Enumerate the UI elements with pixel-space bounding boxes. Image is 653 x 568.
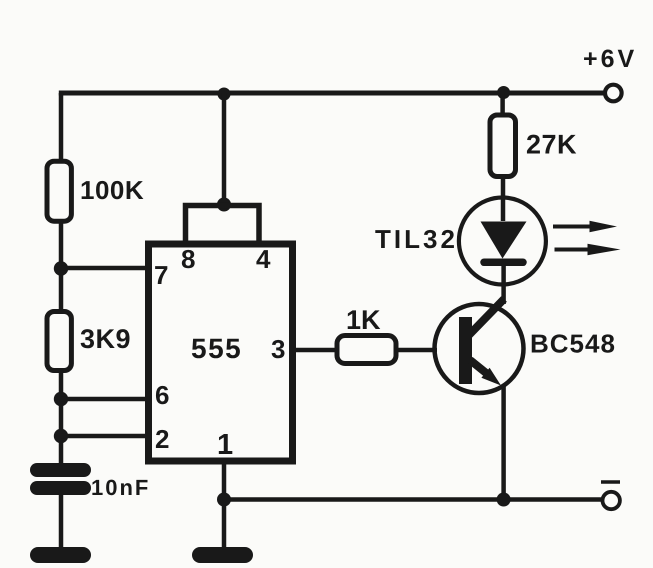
wire: 555 supply branch vertical (222, 93, 227, 204)
wire: pins 8 and 4 bracket (186, 206, 260, 247)
minus mark above 0V terminal (601, 480, 620, 484)
transistor Q1 emitter arrowhead (481, 368, 501, 386)
svg-text:100K: 100K (80, 175, 144, 205)
svg-text:1K: 1K (346, 305, 381, 335)
svg-text:2: 2 (155, 424, 169, 454)
svg-text:555: 555 (191, 333, 242, 364)
wire: pin 1 vertical (222, 461, 227, 550)
transistor Q1 emitter stroke (470, 360, 488, 375)
junction: top rail to 555 supply branch (218, 88, 231, 101)
capacitor C1 10nF top plate (37, 463, 84, 477)
junction: pin 1 to bottom rail (217, 493, 231, 507)
svg-text:3: 3 (271, 334, 285, 364)
capacitor C1 10nF bottom plate (37, 481, 84, 495)
light emission arrow (upper) (553, 225, 592, 229)
wire: left vertical between 100K and 3K9 (59, 222, 64, 313)
LED D1 anode triangle (481, 222, 527, 259)
wire: 27K to LED (501, 175, 506, 221)
wire: pin 2 (61, 434, 148, 439)
svg-text:27K: 27K (526, 130, 577, 160)
LED D1 TIL32 circle (459, 198, 546, 285)
resistor R3 1K (337, 336, 396, 364)
ground (under pin 1) (200, 547, 245, 563)
wire: emitter to bottom rail (501, 386, 506, 499)
svg-text:4: 4 (256, 244, 271, 274)
svg-text:BC548: BC548 (530, 329, 616, 359)
svg-text:7: 7 (154, 260, 168, 290)
+6V terminal (605, 85, 622, 102)
ground (left, under capacitor) (38, 547, 83, 563)
junction: pin 2 node (54, 429, 68, 443)
wire: pin 7 (61, 266, 148, 271)
junction: pin 7 node (54, 261, 68, 275)
svg-text:+6V: +6V (583, 45, 637, 73)
wire: pin 6 (61, 397, 148, 402)
svg-text:6: 6 (155, 380, 169, 410)
junction: top rail to 27K (497, 86, 510, 99)
wire: LED cathode to collector junction (501, 263, 506, 304)
junction: emitter to bottom rail (497, 493, 511, 507)
wire: 1K to transistor base (395, 348, 437, 353)
svg-text:3K9: 3K9 (80, 324, 131, 354)
IC U1 555 body (149, 244, 293, 461)
0V terminal (603, 492, 620, 509)
resistor R4 27K (490, 115, 516, 177)
transistor Q1 collector stroke (469, 299, 504, 335)
junction: pin 6 node (54, 392, 68, 406)
svg-text:8: 8 (181, 244, 195, 274)
svg-text:1: 1 (217, 429, 233, 461)
resistor R2 3K9 (47, 312, 71, 371)
wire: pin 3 to 1K (296, 348, 338, 353)
junction: pins 8-4 bracket (217, 198, 231, 212)
wire: top rail to 27K (500, 93, 505, 117)
top rail wire (+6V) (59, 91, 604, 96)
transistor Q1 base bar (459, 317, 472, 384)
svg-text:10nF: 10nF (91, 475, 150, 500)
svg-text:TIL32: TIL32 (375, 224, 458, 254)
wire: capacitor to ground (59, 493, 64, 550)
light emission arrow (lower) (555, 248, 591, 252)
LED D1 cathode bar (484, 259, 523, 267)
transistor Q1 BC548 circle (435, 304, 524, 393)
wire: left vertical top segment (59, 93, 64, 162)
bottom rail wire (0V) (224, 497, 602, 502)
resistor R1 100K (47, 161, 71, 221)
wire: left vertical between 3K9 and capacitor (59, 371, 64, 466)
